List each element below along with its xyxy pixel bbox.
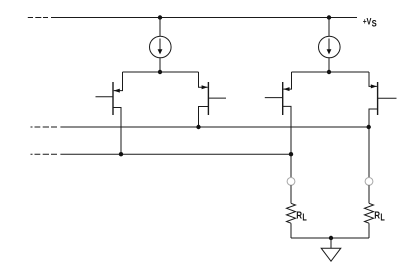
node: tail of right pair [327, 70, 331, 74]
node: ground junction [329, 236, 333, 240]
wire: left terminal to RL [290, 185, 292, 203]
node: top rail / I1 junction [158, 15, 162, 19]
bottom rail wire [291, 237, 369, 239]
wire: top rail to current source I2 [328, 18, 330, 37]
current source I1 [150, 36, 172, 58]
Q1 gate stub [96, 96, 114, 98]
+Vs top rail dashed lead-in [28, 17, 48, 19]
transistor Q2 channel bar [207, 82, 209, 115]
Q2 drain lead [199, 107, 209, 128]
Q4 source lead [369, 72, 377, 86]
wire: right terminal to RL [368, 185, 370, 203]
+Vs top rail wire [51, 17, 357, 19]
wire: ground stub [330, 238, 332, 248]
label +Vs [363, 15, 377, 28]
transistor Q1 channel bar [112, 82, 114, 115]
Q4 source arrow [371, 84, 377, 88]
wire: RL left to bottom rail [290, 223, 292, 238]
Q2 source lead [199, 72, 208, 87]
Q2 gate stub [208, 97, 226, 99]
ground symbol [321, 248, 341, 261]
wire: top rail to current source I1 [159, 18, 161, 37]
rail A dashed lead-in [31, 126, 58, 128]
Q3 source lead [283, 72, 291, 89]
Q1 source arrow [114, 89, 120, 93]
node: top rail / I2 junction [327, 15, 331, 19]
current source I2 [319, 36, 341, 58]
svg-text:L: L [302, 213, 306, 224]
resistor RL left [287, 203, 296, 223]
resistor RL right [365, 203, 374, 223]
transistor Q4 channel bar [377, 82, 379, 115]
wire: tail line of right pair [292, 71, 370, 73]
Q4 gate stub [378, 97, 397, 99]
node: Q2 drain on rail A [196, 125, 200, 129]
output terminal circle left [287, 178, 295, 186]
Q3 source arrow [283, 87, 289, 91]
node: rail A end / Q4 drain [367, 125, 371, 129]
node: Q1 drain on rail B [119, 152, 123, 156]
Q2 source arrow [202, 85, 208, 89]
wire: I1 to tail node 1 [159, 58, 161, 72]
transistor Q3 channel bar [282, 82, 284, 115]
arrow of I2 [328, 39, 330, 50]
svg-text:L: L [380, 213, 384, 224]
node: rail B end / Q3 drain [289, 152, 293, 156]
Q1 source lead [114, 72, 123, 91]
Q3 drain lead [283, 106, 291, 177]
label RL right [374, 210, 385, 223]
output terminal circle right [365, 178, 373, 186]
arrow of I1 [159, 39, 161, 50]
Q1 drain lead [113, 108, 121, 155]
node: tail of left pair [158, 70, 162, 74]
Q3 gate stub [265, 97, 283, 99]
wire: tail line of left pair [123, 71, 199, 73]
wire: I2 to tail node 2 [328, 58, 330, 72]
rail B wire [60, 153, 291, 155]
Q4 drain lead [369, 109, 378, 177]
rail A wire [60, 126, 368, 128]
label RL left [296, 210, 307, 223]
rail B dashed lead-in [31, 153, 58, 155]
wire: RL right to bottom rail [368, 223, 370, 238]
svg-text:S: S [372, 18, 377, 28]
